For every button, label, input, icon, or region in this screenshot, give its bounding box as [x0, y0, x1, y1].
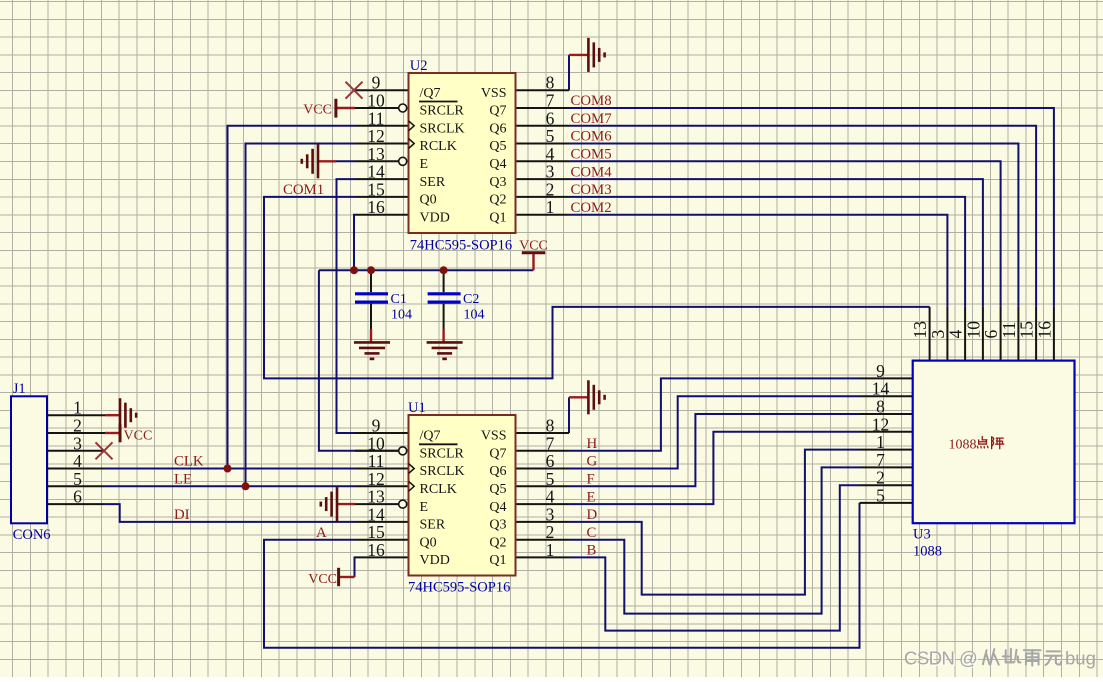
wire LE net from U2 pin12 down — [246, 144, 356, 487]
svg-text:VCC: VCC — [124, 428, 153, 443]
svg-text:Q2: Q2 — [489, 193, 506, 208]
svg-text:104: 104 — [464, 308, 485, 323]
svg-text:SER: SER — [420, 518, 446, 533]
svg-text:Q2: Q2 — [489, 535, 506, 550]
U2 left pin stubs — [355, 89, 409, 91]
capacitor C2 — [443, 270, 445, 292]
U3 top pin stubs — [929, 307, 931, 361]
svg-text:C: C — [587, 525, 597, 541]
svg-text:H: H — [587, 436, 598, 452]
svg-text:U3: U3 — [913, 527, 931, 543]
inversion bubble U2 pin10 — [399, 104, 407, 112]
svg-text:5: 5 — [876, 485, 885, 505]
J1 pin stubs — [47, 414, 105, 416]
clock wedge U2 pin11 — [409, 121, 415, 131]
svg-text:COM1: COM1 — [283, 182, 324, 198]
wire COM5 net — [569, 161, 1001, 307]
wire A net U1.Q0 to U3.5 — [264, 503, 860, 648]
svg-text:VDD: VDD — [420, 210, 450, 225]
svg-text:LE: LE — [174, 472, 192, 488]
wire LE net horizontal J1.5 to U1.12 — [105, 485, 355, 487]
junction C1/rail — [367, 266, 375, 274]
svg-text:Q0: Q0 — [420, 193, 437, 208]
inversion bubble U1 pin13 — [399, 500, 407, 508]
wire C net — [569, 467, 860, 613]
capacitor C1 — [370, 270, 372, 292]
wire CLK net horizontal J1.4 to U1.11 — [105, 468, 355, 470]
svg-text:1: 1 — [546, 197, 555, 217]
svg-text:C1: C1 — [391, 292, 407, 307]
ground under C2 — [427, 341, 463, 344]
svg-text:C2: C2 — [463, 292, 479, 307]
svg-text:J1: J1 — [13, 381, 26, 397]
svg-text:1: 1 — [546, 540, 555, 560]
U3 left pin stubs — [860, 377, 913, 379]
junction LE — [242, 482, 250, 490]
svg-text:E: E — [587, 489, 596, 505]
svg-text:/Q7: /Q7 — [420, 86, 441, 101]
svg-text:VDD: VDD — [420, 553, 450, 568]
svg-text:SER: SER — [420, 175, 446, 190]
svg-text:Q6: Q6 — [489, 464, 506, 479]
U2 right pin stubs — [516, 89, 570, 91]
svg-text:1088: 1088 — [949, 438, 977, 453]
svg-text:16: 16 — [367, 540, 385, 560]
wire COM6 net — [569, 144, 1018, 307]
clock wedge U1 pin11 — [409, 464, 415, 474]
wire U2 pin13 to ground — [336, 160, 355, 162]
svg-text:Q0: Q0 — [420, 535, 437, 550]
wire U1 VDD down to VCC — [354, 557, 357, 577]
wire U1 VSS to ground — [568, 397, 570, 433]
svg-text:DI: DI — [174, 507, 190, 523]
svg-text:CSDN @: CSDN @ — [904, 648, 977, 669]
wire D net — [569, 450, 860, 595]
U1 right pin stubs — [516, 432, 570, 434]
svg-text:Q5: Q5 — [489, 482, 506, 497]
svg-text:VSS: VSS — [481, 429, 507, 444]
watermark hanzi ci — [1005, 650, 1007, 662]
svg-text:D: D — [587, 507, 598, 523]
wire G net — [569, 396, 860, 468]
U1 left pin stubs — [355, 432, 409, 434]
wire DI net — [105, 504, 355, 522]
wire COM2 net — [569, 215, 947, 307]
svg-text:COM2: COM2 — [571, 200, 612, 216]
junction C2/rail — [440, 266, 448, 274]
svg-text:COM8: COM8 — [571, 93, 612, 109]
svg-text:B: B — [587, 543, 597, 559]
svg-text:VCC: VCC — [519, 238, 548, 253]
svg-text:Q7: Q7 — [489, 104, 506, 119]
hanzi dian of U3 label — [981, 437, 983, 440]
svg-text:Q7: Q7 — [489, 447, 506, 462]
svg-text:SRCLR: SRCLR — [420, 104, 465, 119]
ground at U2 VSS — [569, 54, 587, 56]
watermark hanzi zai — [1024, 649, 1041, 651]
svg-text:SRCLK: SRCLK — [420, 122, 465, 137]
svg-text:RCLK: RCLK — [420, 139, 457, 154]
svg-text:/Q7: /Q7 — [420, 429, 441, 444]
IC U1 74HC595 body — [409, 415, 516, 576]
wire U2 VDD to VCC rail — [354, 215, 355, 271]
svg-text:104: 104 — [391, 308, 412, 323]
no-connect X at U2 pin9 — [346, 82, 363, 99]
svg-text:A: A — [316, 525, 327, 541]
U2 SRCLR overline — [419, 101, 458, 103]
svg-text:VSS: VSS — [481, 86, 507, 101]
no-connect X at J1 pin3 — [96, 442, 113, 459]
svg-text:Q3: Q3 — [489, 518, 506, 533]
ground at U1 pin13 E — [337, 503, 355, 505]
dot-matrix U3 body — [913, 361, 1075, 524]
svg-text:Q4: Q4 — [489, 157, 506, 172]
svg-text:Q6: Q6 — [489, 122, 506, 137]
svg-text:1088: 1088 — [913, 544, 942, 560]
op-amp? no: IC U2 74HC595 body — [409, 73, 516, 233]
watermark hanzi wu — [1047, 650, 1060, 652]
VCC symbol on rail below U2 — [532, 253, 534, 270]
junction VDD/rail — [350, 266, 358, 274]
wire VCC rail to U1 SRCLR — [319, 270, 399, 451]
svg-text:SRCLR: SRCLR — [420, 447, 465, 462]
VCC symbol at U2 pin10 SRCLR — [336, 107, 355, 109]
svg-text:RCLK: RCLK — [420, 482, 457, 497]
svg-text:74HC595-SOP16: 74HC595-SOP16 — [408, 580, 510, 596]
svg-text:F: F — [587, 472, 595, 488]
wire COM7 net — [569, 126, 1036, 307]
svg-text:COM5: COM5 — [571, 147, 612, 163]
svg-text:COM7: COM7 — [571, 111, 612, 127]
inversion bubble U1 pin10 — [399, 447, 407, 455]
svg-text:U2: U2 — [410, 58, 428, 74]
junction CLK — [224, 465, 232, 473]
svg-text:CLK: CLK — [174, 454, 204, 470]
ground at U1 VSS — [569, 396, 587, 398]
wire H net — [569, 378, 860, 450]
watermark hanzi cong — [983, 650, 987, 664]
svg-text:Q3: Q3 — [489, 175, 506, 190]
VCC symbol at U1 VDD — [339, 576, 355, 578]
svg-text:Q1: Q1 — [489, 553, 506, 568]
svg-text:E: E — [420, 500, 429, 515]
svg-text:16: 16 — [1034, 321, 1054, 339]
wire U1 /Q7 to U2 SER — [337, 179, 356, 433]
wire F net — [569, 414, 860, 486]
wire COM3 net — [569, 197, 965, 307]
svg-text:COM6: COM6 — [571, 129, 612, 145]
svg-text:bug: bug — [1065, 648, 1096, 669]
ground under C1 — [354, 341, 390, 344]
wire COM4 net — [569, 179, 983, 307]
U1 SRCLR overline — [419, 443, 458, 445]
wire CLK net from U2 pin11 down — [228, 126, 356, 469]
svg-text:E: E — [420, 157, 429, 172]
svg-text:U1: U1 — [408, 400, 426, 416]
svg-text:74HC595-SOP16: 74HC595-SOP16 — [410, 238, 512, 254]
svg-text:SRCLK: SRCLK — [420, 464, 465, 479]
hanzi zhen of U3 label — [991, 437, 993, 449]
svg-text:Q4: Q4 — [489, 500, 506, 515]
clock wedge U1 pin12 — [409, 481, 415, 491]
wire COM8 net — [569, 108, 1054, 307]
svg-text:CON6: CON6 — [13, 527, 51, 543]
inversion bubble U2 pin13 — [399, 157, 407, 165]
svg-text:COM3: COM3 — [571, 182, 612, 198]
svg-text:Q1: Q1 — [489, 210, 506, 225]
svg-text:VCC: VCC — [303, 103, 332, 118]
ground at U2 pin13 E — [318, 160, 336, 162]
svg-text:VCC: VCC — [308, 572, 337, 587]
wire COM1 net — [264, 197, 930, 379]
svg-text:COM4: COM4 — [571, 164, 613, 180]
clock wedge U2 pin12 — [409, 139, 415, 149]
wire VCC rail — [319, 269, 534, 271]
svg-text:16: 16 — [367, 197, 385, 217]
svg-text:Q5: Q5 — [489, 139, 506, 154]
connector J1 body — [11, 396, 47, 523]
ground at J1 pin1 — [105, 414, 120, 416]
VCC symbol at J1 pin2 — [105, 432, 120, 434]
wire U2 VSS to ground — [568, 55, 570, 90]
wire E net — [569, 432, 860, 504]
svg-text:G: G — [587, 454, 598, 470]
svg-text:6: 6 — [73, 487, 82, 507]
wire B net — [569, 485, 860, 630]
